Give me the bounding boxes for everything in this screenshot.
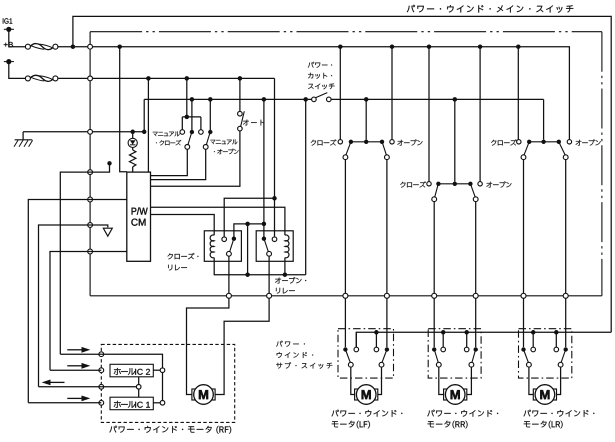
- wire+arrow row1: [60, 353, 101, 355]
- manual open switch SW2 moving contact: [208, 130, 212, 134]
- label RR close/open: [400, 182, 405, 188]
- wire row2 to P/W CM: [90, 199, 127, 201]
- wire LF close output down: [344, 160, 346, 294]
- label motor RF: [109, 426, 117, 433]
- label auto: [243, 120, 249, 126]
- wire +B line into main switch: [58, 77, 275, 79]
- open relay NC contact: [272, 237, 277, 242]
- manual close switch blade and output: [188, 133, 192, 145]
- wire ground bus to RR common: [453, 97, 458, 102]
- resistor R1: [132, 148, 134, 151]
- wire LR open output down: [565, 160, 567, 294]
- wire manual close bracket feed: [186, 78, 188, 117]
- LF outer contacts: [343, 347, 347, 351]
- wire IG1 to LR close contact: [516, 44, 521, 49]
- motor RR: [444, 389, 448, 400]
- pin motor RF row3: [99, 384, 104, 389]
- wire sub-switch feed loop: IG1 top rail, right border, into sub switches: [73, 16, 611, 332]
- open relay K2 box: [256, 231, 293, 261]
- wire P/W CM to close relay coil: [151, 215, 215, 231]
- open relay blade and common: [264, 240, 268, 252]
- junction IG1 riser to sub-switch feed loop: [71, 44, 76, 49]
- wire IG1 to RR open contact: [478, 44, 483, 49]
- wire hall IC right bus: [101, 354, 162, 400]
- wire IG1 to RR close contact: [427, 44, 432, 49]
- wire IG1 line end to LR open contact: [567, 47, 569, 140]
- junction ground rail to power cut branch: [303, 97, 308, 102]
- wire sub-switch common feed from border: [356, 332, 611, 347]
- junction bracket to ground rail: [262, 222, 267, 227]
- wire ground bus right section: [331, 98, 543, 100]
- window switch blade left: [524, 143, 529, 155]
- node row1 stub with terminal dot: [90, 165, 109, 172]
- wire IG1 to LF open contact: [390, 44, 395, 49]
- wire open relay coil bottom to common: [284, 261, 286, 274]
- wire power cut ground drop to relay coil common: [305, 99, 307, 274]
- wire ground to LED/bus: [23, 131, 146, 133]
- window switch bar: [529, 141, 559, 143]
- junction bracket center to coil common: [245, 222, 250, 227]
- window switch blade right: [559, 143, 565, 155]
- wire row4 to P/W CM: [90, 251, 127, 253]
- wire fuse to main switch (IG1 line): [58, 46, 567, 48]
- LF sub-switch box: [338, 329, 394, 378]
- LED indicator D1: [130, 130, 135, 135]
- node IG1 terminal: [2, 18, 5, 23]
- wire +B drop to open relay NC: [274, 78, 276, 237]
- label manual open: [210, 140, 215, 144]
- close relay coil: [213, 231, 215, 235]
- window switch close contact: [338, 140, 342, 144]
- window switch blade left: [435, 185, 438, 197]
- pin motor RF row4: [99, 400, 104, 405]
- node +B terminal: [4, 43, 8, 47]
- motor LF: [355, 389, 359, 400]
- wire RR close output down: [433, 202, 435, 294]
- auto switch SW3: [239, 78, 241, 111]
- wire open relay output to motor RF: [268, 256, 270, 293]
- hall IC 2 box: [110, 364, 153, 377]
- wire close relay output to motor RF: [228, 256, 230, 293]
- label manual close: [153, 132, 158, 136]
- node row3 stub with arrow terminal: [90, 225, 108, 227]
- close relay NO contact: [232, 237, 236, 241]
- wire manual close output to P/W CM: [151, 149, 188, 175]
- label motor LR: [524, 410, 531, 417]
- pins window outputs through boundary: [343, 293, 348, 298]
- manual close switch SW1 moving contact: [190, 130, 194, 134]
- motor LR: [533, 389, 537, 400]
- close relay blade and common: [230, 240, 234, 252]
- pin open relay output through boundary: [267, 293, 272, 298]
- ground symbol: [22, 132, 24, 140]
- junction +B to auto switch: [238, 76, 243, 81]
- wire row4-out (to motor row2) outside main switch: [50, 252, 90, 371]
- wire IG1 to LF close contact: [338, 44, 343, 49]
- label motor LF: [332, 410, 339, 417]
- window switch close contact: [517, 140, 521, 144]
- pin close relay output through boundary: [226, 293, 231, 298]
- RR inner contact feeds: [441, 330, 446, 335]
- manual close switch bracket: [182, 116, 201, 118]
- open relay NO contact: [262, 237, 266, 241]
- power window main switch boundary (chain line box): [90, 31, 602, 33]
- window switch bar: [351, 141, 382, 143]
- wire RR open output down: [475, 202, 477, 294]
- LF inner contact feeds: [374, 330, 379, 335]
- wire hall IC mid link: [138, 377, 140, 385]
- wire IG1 terminal to fuse: [9, 29, 26, 46]
- fuse F2 (+B): [25, 76, 30, 81]
- wire switch common ground bus (left section): [144, 98, 311, 100]
- wire+arrow row3 (output): [39, 386, 102, 388]
- wire ground bus to LF common: [364, 97, 369, 102]
- wire NO bracket between relays: [234, 224, 264, 239]
- open relay coil: [284, 231, 286, 235]
- label power cut switch: [308, 62, 314, 68]
- window switch blade left: [346, 143, 351, 155]
- wire relay coil common to ground drop: [214, 261, 306, 274]
- window switch open contact: [390, 140, 394, 144]
- window switch close contact: [427, 182, 431, 186]
- RR sub-switch box: [428, 329, 481, 378]
- ground bus riser to switch common rail: [142, 130, 147, 135]
- close relay NC contact: [222, 237, 227, 242]
- window switch open contact: [567, 140, 571, 144]
- wire+arrow row4: [28, 402, 101, 404]
- wire row2-out (to motor row4) outside main switch: [28, 200, 90, 403]
- label sub switch: [276, 341, 282, 347]
- RR blades: [435, 351, 439, 363]
- wire row3-out (to motor row3) outside main switch: [39, 225, 91, 387]
- pin main switch row1: [88, 170, 93, 175]
- junction +B to relay NC rail: [272, 196, 277, 201]
- pin main switch row2: [88, 197, 93, 202]
- power window motor RF box (dashed): [101, 344, 234, 422]
- pin ground into main switch: [88, 129, 93, 134]
- P/W control module U1 (P/W CM): [127, 172, 151, 261]
- label close relay: [168, 253, 173, 259]
- wire row3 to hall IC mid link: [101, 386, 136, 388]
- label LF close/open: [311, 140, 316, 146]
- label LR close/open: [491, 140, 496, 146]
- junction +B to manual close bracket: [185, 76, 190, 81]
- wire IG1 feed to P/W CM: [117, 44, 122, 49]
- wire +B terminal to fuse: [9, 62, 26, 79]
- RR outer contacts: [432, 347, 436, 351]
- LR blades: [524, 351, 529, 363]
- wire +B feed to P/W CM: [146, 76, 151, 81]
- window switch open contact: [478, 182, 482, 186]
- LR inner contact feeds: [531, 330, 536, 335]
- wire auto switch output to P/W CM: [151, 131, 240, 186]
- hall IC 1 box: [110, 397, 153, 410]
- LF motor wires: [351, 367, 355, 394]
- window switch blade right: [471, 185, 475, 197]
- wire LF open output down: [386, 160, 388, 294]
- window switch blade right: [382, 143, 386, 155]
- pin +B into main switch: [88, 76, 93, 81]
- wire manual open output to P/W CM: [151, 149, 206, 179]
- LR motor wires: [529, 367, 534, 394]
- wire row1-out (to motor row1) outside main switch: [60, 172, 90, 354]
- wire close relay NC to +B rail: [224, 198, 274, 237]
- LR outer contacts: [521, 347, 525, 351]
- pin motor RF row1: [99, 352, 104, 357]
- wire LR close output down: [523, 160, 525, 294]
- pin main switch row3: [88, 223, 93, 228]
- wire ground bus end to LR common: [543, 99, 545, 139]
- wires window outputs to sub switches: [344, 298, 346, 347]
- label motor RR: [427, 410, 434, 417]
- label open relay: [275, 278, 281, 284]
- window switch bar: [438, 183, 470, 185]
- RR motor wires: [439, 367, 444, 394]
- label main switch: [407, 5, 415, 12]
- LR sub-switch box: [519, 329, 572, 378]
- pin IG1 into main switch: [88, 44, 93, 49]
- fuse F1 (IG1): [25, 44, 30, 49]
- manual open switch blade and output: [206, 133, 210, 145]
- pin main switch row4: [88, 249, 93, 254]
- wire P/W CM to open relay coil: [151, 207, 285, 231]
- pin motor RF row2: [99, 368, 104, 373]
- motor RF: [192, 389, 196, 400]
- wire+arrow row2: [50, 369, 101, 371]
- power cut switch SW4 (open): [312, 97, 317, 102]
- close relay K1 box: [204, 231, 241, 261]
- LF blades: [346, 351, 351, 363]
